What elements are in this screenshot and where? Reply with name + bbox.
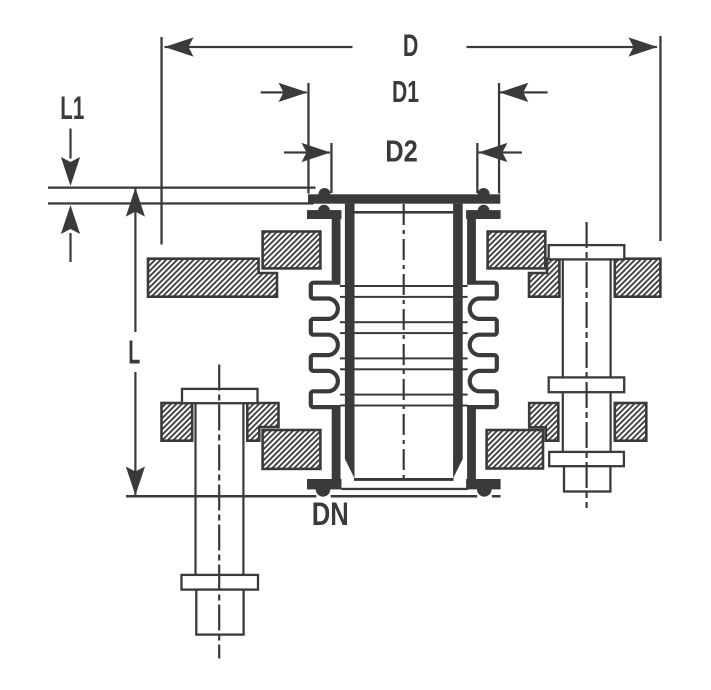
dimension L1 upper arrowhead — [61, 157, 80, 186]
dimension L line upper segment — [134, 188, 136, 332]
bottom collar bead left — [316, 482, 331, 497]
dimension D2 arrowhead left — [302, 143, 331, 162]
top retaining ring bead left — [318, 205, 330, 217]
bore line convolution 1 upper — [340, 285, 468, 287]
bore line convolution 1 lower — [340, 296, 468, 298]
dimension L1 lower arrow tail — [69, 233, 71, 262]
bore line convolution 4 lower — [340, 405, 468, 407]
svg-text:L1: L1 — [60, 90, 84, 126]
dimension D2 tail line right — [479, 151, 522, 153]
bottom face line segment centre — [331, 495, 478, 498]
flange plate A upper-left (hatched) — [263, 232, 321, 269]
dimension D1 tail line left — [261, 91, 307, 93]
dimension D1 arrowhead right — [499, 83, 528, 102]
expansion joint top rubber flange bead right — [478, 188, 490, 200]
flange plate B upper-left (hatched, stepped by plate A) — [148, 259, 277, 297]
bottom face line segment right — [492, 495, 501, 498]
svg-text:D2: D2 — [385, 134, 418, 169]
dimension L1 upper arrow tail — [69, 129, 71, 159]
flange plate A' upper-right (hatched) — [488, 232, 546, 269]
bellows outer wall lower-right segment — [467, 405, 476, 481]
bottom face line segment left — [126, 495, 316, 498]
dimension D extension line left — [160, 37, 162, 245]
bolt left shank line right — [242, 403, 244, 575]
dimension D1 tail line right — [500, 91, 548, 93]
bolt right top plate — [549, 245, 625, 259]
top retaining ring bar left — [307, 210, 342, 219]
bolt left washer — [182, 575, 259, 590]
bolt left shank line left — [194, 403, 196, 575]
dimension L lower arrowhead — [126, 467, 145, 496]
dimension D line right segment — [467, 46, 658, 48]
flange plate B2' lower-right, left piece of bolt hole (hatched, notched by plate A2') — [529, 403, 558, 441]
dimension D extension line right — [659, 36, 661, 241]
bolt right shank line left — [562, 259, 564, 452]
bellows convolutions left (serpentine) — [311, 283, 341, 407]
bolt left top plate — [182, 389, 258, 403]
bottom gasket line between collars — [342, 488, 469, 490]
dimension L1 lower reference line — [48, 202, 314, 204]
dimension D2 arrowhead right — [478, 143, 507, 162]
flange plate A2' lower-right (hatched) — [487, 430, 543, 469]
flange plate B2' lower-right, right piece of bolt hole (hatched) — [615, 403, 647, 441]
svg-text:D: D — [403, 27, 419, 63]
dimension D arrowhead left — [165, 37, 194, 56]
bore line convolution 2 lower — [340, 332, 468, 334]
bellows outer wall lower-left segment — [332, 405, 341, 481]
bolt left centre line — [218, 365, 220, 659]
dimension D1 extension line right — [498, 83, 500, 194]
bottom collar bead right — [477, 482, 492, 497]
dimension L1 lower arrowhead — [61, 205, 80, 234]
flange plate B2 lower-left, right piece of bolt hole (hatched, notched by plate A2) — [247, 403, 278, 441]
bellows liner wall right — [453, 204, 463, 479]
svg-text:D1: D1 — [392, 74, 419, 109]
bottom collar bar left — [307, 479, 342, 489]
bellows liner wall left — [345, 204, 355, 479]
flange plate A2 lower-left (hatched) — [263, 430, 321, 469]
bolt right end rod — [564, 466, 610, 491]
bolt right lower washer — [549, 452, 624, 466]
flange plate B' upper-right, left piece of bolt hole (hatched, stepped by plate A') — [529, 259, 559, 297]
joint top inner face line — [355, 211, 454, 214]
svg-text:DN: DN — [312, 496, 349, 532]
bellows convolutions right (serpentine) — [467, 283, 497, 407]
bolt right shank line right — [610, 259, 612, 452]
bore line convolution 4 upper — [340, 394, 468, 396]
dimension D2 extension line right — [476, 143, 478, 193]
joint bottom inner face line — [354, 478, 454, 481]
dimension D line left segment — [165, 46, 353, 48]
flange plate B' upper-right, right piece of bolt hole (hatched) — [615, 259, 661, 297]
bellows outer wall upper-left segment — [332, 218, 341, 285]
dimension L upper arrowhead — [126, 188, 145, 217]
bellows outer wall upper-right segment — [467, 218, 476, 285]
dimension L line lower segment — [134, 372, 136, 495]
joint centre line (dash-dot) — [403, 204, 405, 479]
top retaining ring bar right — [466, 210, 501, 219]
dimension D1 arrowhead left — [279, 83, 308, 102]
bore line convolution 3 upper — [340, 357, 468, 359]
bolt left end rod — [196, 590, 243, 635]
bolt right centre line — [585, 222, 587, 508]
bore line convolution 2 upper — [340, 321, 468, 323]
bolt right middle washer — [549, 377, 625, 392]
dimension D2 extension line left — [330, 143, 332, 193]
dimension D2 tail line left — [284, 151, 330, 153]
flange plate B2 lower-left, left piece of bolt hole (hatched) — [162, 403, 193, 441]
expansion joint top rubber flange bar — [308, 194, 500, 203]
bore line convolution 3 lower — [340, 368, 468, 370]
dimension D arrowhead right — [629, 37, 658, 56]
svg-text:L: L — [128, 335, 140, 372]
top retaining ring bead right — [478, 205, 490, 217]
dimension D1 extension line left — [307, 83, 309, 194]
dimension L1 upper reference line — [48, 187, 316, 189]
expansion joint top rubber flange bead left — [319, 188, 331, 200]
bottom collar bar right — [466, 479, 501, 489]
